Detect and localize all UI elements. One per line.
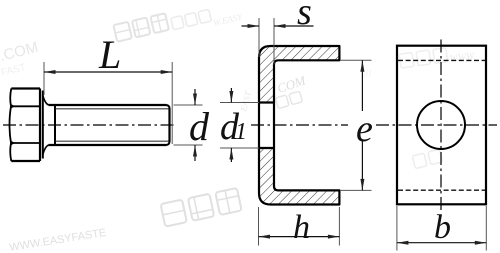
L extension line right: [171, 62, 173, 144]
channel upper material (hatched): [259, 46, 339, 103]
centerline channel: [251, 124, 348, 126]
neck fillet top: [43, 96, 49, 105]
svg-text:b: b: [434, 209, 451, 246]
svg-text:s: s: [297, 0, 312, 33]
watermark bottom-center: [161, 188, 242, 227]
d1 dimension arrows: [230, 88, 232, 103]
e dimension line: [361, 60, 363, 111]
b extension lines: [396, 206, 398, 251]
svg-text:.COM: .COM: [0, 39, 40, 65]
b dimension line: [397, 242, 486, 244]
svg-text:h: h: [293, 209, 310, 246]
web hole side walls: [258, 103, 260, 149]
svg-text:L: L: [98, 32, 121, 77]
svg-text:EAST: EAST: [238, 89, 253, 113]
plate outline: [397, 46, 486, 205]
neck fillet bottom: [43, 145, 49, 154]
L extension line left: [43, 62, 45, 95]
facet cusp notches: [11, 104, 16, 109]
svg-text:WWW.EASYFASTE: WWW.EASYFASTE: [9, 227, 107, 253]
svg-text:1: 1: [235, 119, 247, 145]
s extension lines: [258, 18, 260, 57]
svg-text:W.EASY: W.EASY: [212, 11, 244, 28]
e extension lines: [340, 59, 372, 61]
watermark right top: [361, 48, 477, 81]
thread boundary line: [54, 105, 56, 145]
d extension lines: [174, 104, 203, 106]
watermark top-left: [113, 9, 244, 41]
svg-text:COM: COM: [275, 72, 308, 96]
thread minor dia thin lines: [56, 108, 169, 110]
svg-text:WWW: WWW: [449, 50, 477, 65]
svg-text:e: e: [356, 108, 373, 150]
hole circle: [417, 101, 465, 149]
d dimension arrows: [194, 89, 196, 105]
centerline vertical: [440, 40, 442, 212]
hidden line top: [398, 59, 485, 61]
watermark right mid: [412, 149, 442, 168]
shank outline: [49, 105, 170, 145]
head facet lines: [11, 105, 40, 107]
d1 extension lines: [220, 102, 259, 104]
svg-text:FAST: FAST: [0, 62, 27, 79]
hex head outline: [10, 89, 41, 162]
hidden line bottom: [398, 189, 485, 191]
centerline bolt axis: [3, 124, 177, 126]
h extension lines: [258, 207, 260, 246]
channel lower material (hatched): [259, 148, 339, 205]
centerline horizontal (shared): [376, 124, 497, 126]
L dimension line: [44, 71, 172, 73]
h dimension line: [259, 236, 340, 238]
watermark center: [238, 72, 309, 113]
svg-text:d: d: [189, 104, 210, 149]
washer face line: [42, 91, 44, 159]
s dimension arrows: [242, 25, 260, 27]
